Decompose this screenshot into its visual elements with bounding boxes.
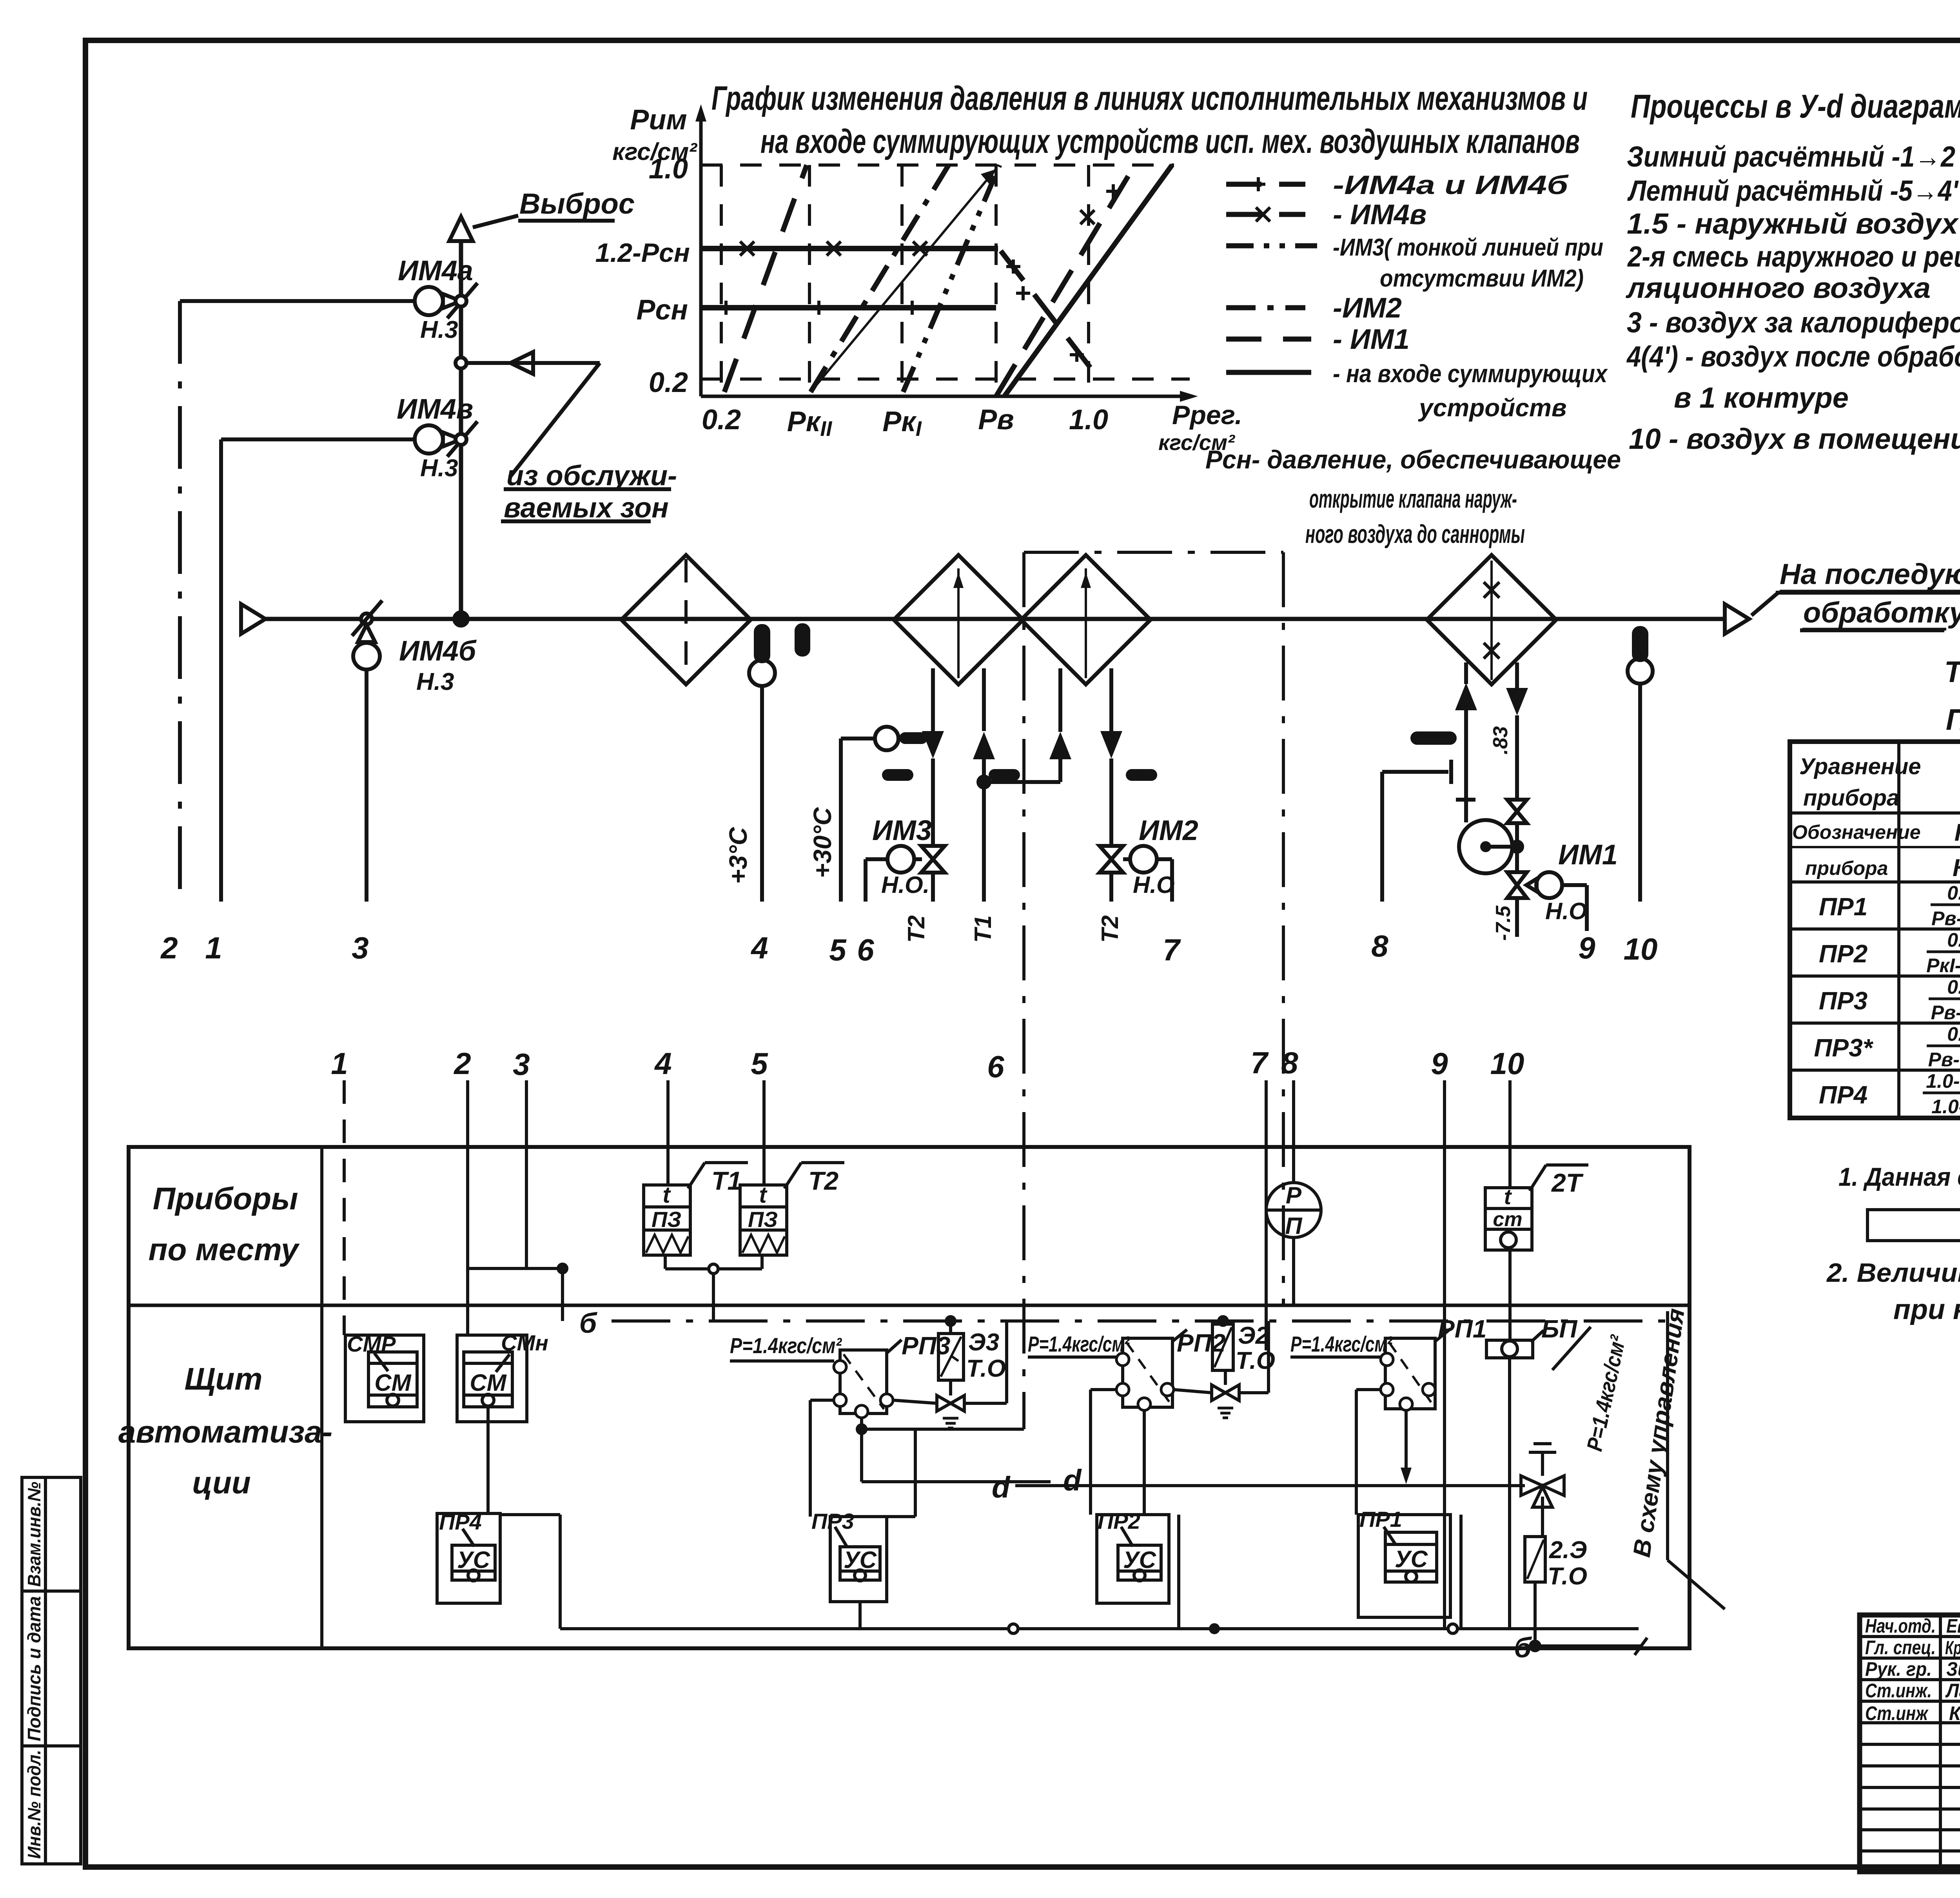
svg-text:открытие клапана наруж-: открытие клапана наруж- — [1309, 484, 1517, 513]
svg-text:d: d — [1063, 1464, 1082, 1497]
svg-text:Рв: Рв — [978, 404, 1014, 435]
svg-text:Рсн: Рсн — [636, 294, 688, 326]
svg-text:РкI-РкII: РкI-РкII — [1926, 954, 1960, 976]
svg-text:СМ: СМ — [374, 1370, 412, 1396]
svg-text:Н.3: Н.3 — [416, 668, 454, 695]
svg-text:ИМ4а: ИМ4а — [398, 255, 473, 287]
svg-text:0.2: 0.2 — [702, 404, 741, 435]
svg-text:4: 4 — [654, 1046, 671, 1081]
svg-text:устройств: устройств — [1418, 394, 1567, 422]
svg-text:Н.3: Н.3 — [420, 455, 458, 482]
svg-text:Р: Р — [1286, 1182, 1302, 1208]
svg-text:ИМ1: ИМ1 — [1558, 839, 1618, 871]
svg-text:Н.3: Н.3 — [420, 316, 458, 343]
svg-text:График изменения давления в ли: График изменения давления в линиях испол… — [711, 80, 1588, 117]
svg-text:0.8: 0.8 — [1947, 882, 1960, 904]
svg-text:2: 2 — [160, 931, 178, 965]
svg-text:10: 10 — [1624, 932, 1658, 966]
svg-text:Р=1.4кгс/см²: Р=1.4кгс/см² — [730, 1333, 842, 1358]
svg-text:В схему управления: В схему управления — [1628, 1307, 1690, 1559]
svg-text:-ИМ3( тонкой линией при: -ИМ3( тонкой линией при — [1333, 234, 1603, 261]
svg-text:9: 9 — [1431, 1046, 1448, 1081]
svg-text:- ИМ1: - ИМ1 — [1333, 324, 1410, 355]
svg-text:5: 5 — [829, 933, 847, 967]
svg-text:0.8: 0.8 — [1947, 929, 1960, 951]
svg-text:ИМ4б: ИМ4б — [399, 635, 477, 667]
svg-text:.83: .83 — [1489, 726, 1512, 755]
svg-text:К: К — [1953, 855, 1960, 882]
svg-text:10: 10 — [1490, 1046, 1524, 1081]
svg-text:ции: ции — [192, 1465, 250, 1500]
svg-text:б: б — [579, 1308, 598, 1339]
svg-text:в 1 контуре: в 1 контуре — [1674, 381, 1849, 414]
svg-text:Рук. гр.: Рук. гр. — [1865, 1658, 1932, 1680]
svg-text:РкII: РкII — [787, 406, 833, 441]
svg-text:УС: УС — [844, 1547, 877, 1573]
svg-text:П: П — [1285, 1213, 1303, 1239]
svg-text:прибора: прибора — [1805, 857, 1888, 879]
svg-text:Ррег.: Ррег. — [1172, 400, 1242, 430]
svg-text:4: 4 — [750, 931, 768, 965]
svg-text:- ИМ4в: - ИМ4в — [1333, 199, 1426, 230]
svg-text:СМ: СМ — [470, 1370, 507, 1396]
svg-text:t: t — [759, 1182, 768, 1208]
svg-text:ПЗ: ПЗ — [652, 1207, 681, 1232]
svg-text:Ст.инж.: Ст.инж. — [1865, 1680, 1932, 1702]
svg-text:1. Данная схема примечена для: 1. Данная схема примечена для следующих … — [1838, 1162, 1960, 1191]
svg-text:Уравнение: Уравнение — [1799, 754, 1921, 779]
svg-text:Зингерман: Зингерман — [1946, 1658, 1960, 1680]
svg-text:ПР4: ПР4 — [1819, 1081, 1867, 1109]
svg-text:0.8: 0.8 — [1947, 1023, 1960, 1045]
svg-text:Взам.инв.№: Взам.инв.№ — [24, 1482, 44, 1587]
svg-text:из обслужи-: из обслужи- — [506, 460, 677, 492]
svg-text:1.0: 1.0 — [1069, 404, 1108, 435]
svg-text:Рсн- давление, обеспечивающее: Рсн- давление, обеспечивающее — [1205, 445, 1621, 474]
svg-text:прибора: прибора — [1803, 785, 1899, 811]
svg-text:8: 8 — [1371, 929, 1388, 963]
svg-text:СМР: СМР — [347, 1332, 396, 1356]
svg-text:ПР1÷ПР4 (ПР2.В): ПР1÷ПР4 (ПР2.В) — [1946, 703, 1960, 737]
svg-text:ПР2: ПР2 — [1819, 940, 1867, 968]
svg-text:УС: УС — [457, 1547, 491, 1573]
svg-text:ст: ст — [1493, 1208, 1522, 1231]
svg-text:УС: УС — [1123, 1547, 1157, 1573]
svg-text:4(4') - воздух после обработ: 4(4') - воздух после обработки — [1626, 340, 1960, 373]
svg-text:Щит: Щит — [184, 1361, 262, 1396]
svg-text:-ИМ4а и ИМ4б: -ИМ4а и ИМ4б — [1333, 170, 1569, 200]
svg-text:ПР3: ПР3 — [1819, 987, 1867, 1015]
svg-text:Гл. спец.: Гл. спец. — [1865, 1637, 1936, 1658]
svg-text:1: 1 — [331, 1046, 348, 1081]
svg-text:6: 6 — [857, 933, 874, 967]
svg-text:9: 9 — [1578, 931, 1595, 965]
svg-text:t: t — [662, 1182, 671, 1208]
svg-text:3: 3 — [352, 931, 368, 965]
svg-text:Подпись и дата: Подпись и дата — [24, 1596, 44, 1741]
svg-text:Рв-РкI: Рв-РкI — [1931, 1002, 1960, 1023]
svg-text:ПР3: ПР3 — [811, 1509, 854, 1533]
svg-text:Н.О: Н.О — [1545, 898, 1587, 924]
svg-text:ПР4: ПР4 — [439, 1510, 482, 1534]
svg-text:ПР2: ПР2 — [1098, 1509, 1140, 1533]
svg-text:Настройка прибора: Настройка прибора — [1955, 819, 1960, 846]
svg-text:ляционного воздуха: ляционного воздуха — [1626, 272, 1931, 304]
svg-text:Т2: Т2 — [1097, 915, 1123, 943]
svg-text:На последующую: На последующую — [1780, 558, 1960, 590]
svg-text:ПР3*: ПР3* — [1814, 1034, 1873, 1062]
svg-text:по месту: по месту — [149, 1232, 300, 1267]
svg-text:ИМ3: ИМ3 — [872, 815, 932, 846]
svg-text:1.0-Рсн: 1.0-Рсн — [1926, 1070, 1960, 1092]
svg-text:ИМ4в: ИМ4в — [397, 394, 473, 425]
svg-text:Рв-0.2: Рв-0.2 — [1931, 907, 1960, 929]
svg-text:Процессы в У-d диаграмме: Процессы в У-d диаграмме — [1631, 88, 1960, 125]
svg-text:d: d — [992, 1471, 1011, 1504]
svg-text:Обозначение: Обозначение — [1792, 821, 1921, 843]
svg-text:+30°C: +30°C — [808, 807, 837, 878]
svg-text:6: 6 — [987, 1049, 1004, 1084]
svg-text:ваемых зон: ваемых зон — [504, 492, 669, 524]
svg-text:при наладке.: при наладке. — [1893, 1294, 1960, 1325]
svg-text:Т2: Т2 — [903, 915, 929, 943]
svg-text:РкI: РкI — [882, 406, 922, 441]
svg-text:Э2: Э2 — [1238, 1322, 1269, 1349]
svg-text:Р=1.4кгс/см²: Р=1.4кгс/см² — [1290, 1332, 1393, 1356]
svg-text:обработку: обработку — [1803, 596, 1960, 629]
svg-text:РП3: РП3 — [902, 1332, 950, 1360]
svg-text:на входе суммирующих устройств: на входе суммирующих устройств исп. мех.… — [760, 123, 1580, 160]
svg-text:2Т: 2Т — [1551, 1168, 1584, 1197]
svg-text:РП1: РП1 — [1438, 1315, 1486, 1343]
svg-text:0.2: 0.2 — [649, 367, 688, 398]
svg-text:Приборы: Приборы — [153, 1181, 298, 1216]
svg-text:5: 5 — [751, 1046, 768, 1081]
svg-text:+3°C: +3°C — [724, 827, 752, 884]
svg-text:ПР1: ПР1 — [1359, 1507, 1402, 1531]
svg-text:1.0-Рв: 1.0-Рв — [1931, 1096, 1960, 1118]
svg-text:Рим: Рим — [630, 104, 687, 136]
svg-text:СМн: СМн — [501, 1330, 548, 1355]
svg-text:1.2-Рсн: 1.2-Рсн — [595, 238, 690, 268]
svg-text:-ИМ2: -ИМ2 — [1333, 292, 1402, 324]
svg-text:2.Э: 2.Э — [1549, 1537, 1587, 1564]
svg-text:Н.О: Н.О — [1133, 872, 1175, 898]
svg-text:Выброс: Выброс — [519, 187, 635, 220]
svg-text:1.0: 1.0 — [649, 153, 688, 185]
svg-text:3: 3 — [513, 1047, 530, 1081]
svg-text:УС: УС — [1395, 1546, 1428, 1572]
svg-text:ного воздуха до саннормы: ного воздуха до саннормы — [1305, 519, 1525, 548]
svg-text:РП2: РП2 — [1177, 1329, 1225, 1357]
svg-text:Кропошевский: Кропошевский — [1945, 1638, 1960, 1658]
svg-text:1: 1 — [205, 931, 222, 965]
svg-text:Р=1.4кгс/см²: Р=1.4кгс/см² — [1582, 1333, 1630, 1453]
svg-text:Э3: Э3 — [968, 1329, 999, 1356]
svg-text:3 - воздух за калорифером: 3 - воздух за калорифером — [1627, 306, 1960, 339]
svg-text:2. Величины давлений РкII, Рк: 2. Величины давлений РкII, РкI, Рв, Рсн … — [1826, 1258, 1960, 1288]
svg-text:ПЗ: ПЗ — [748, 1207, 778, 1232]
svg-text:ПР1: ПР1 — [1819, 893, 1867, 921]
svg-text:Т1: Т1 — [711, 1166, 742, 1195]
svg-text:t: t — [1504, 1184, 1512, 1209]
svg-text:Т.О: Т.О — [1236, 1347, 1275, 1374]
svg-text:10 - воздух в помещении: 10 - воздух в помещении — [1629, 423, 1960, 455]
svg-text:7: 7 — [1163, 933, 1181, 967]
svg-text:отсутствии ИМ2): отсутствии ИМ2) — [1380, 265, 1584, 292]
svg-text:БП: БП — [1541, 1315, 1578, 1343]
svg-text:ИМ2: ИМ2 — [1139, 815, 1198, 846]
svg-text:Ст.инж: Ст.инж — [1865, 1702, 1929, 1724]
svg-text:2-я смесь наружного и рецирку: 2-я смесь наружного и рецирку- — [1627, 240, 1960, 273]
svg-text:7: 7 — [1250, 1045, 1269, 1080]
svg-text:Летний расчётный -5→4': Летний расчётный -5→4' — [1627, 174, 1959, 207]
svg-text:Клименко: Клименко — [1949, 1702, 1960, 1724]
svg-text:Т2: Т2 — [808, 1166, 838, 1195]
svg-text:б: б — [1514, 1632, 1532, 1664]
svg-text:Н.О.: Н.О. — [881, 872, 929, 898]
svg-text:2: 2 — [453, 1046, 471, 1081]
svg-text:-7.5: -7.5 — [1492, 905, 1515, 941]
svg-text:Т1: Т1 — [970, 915, 996, 943]
svg-text:Т.О: Т.О — [966, 1355, 1006, 1382]
svg-text:- на входе суммирующих: - на входе суммирующих — [1333, 359, 1608, 388]
svg-text:Инв.№ подл.: Инв.№ подл. — [24, 1750, 44, 1859]
svg-text:0.8: 0.8 — [1947, 976, 1960, 998]
svg-text:Нач.отд.: Нач.отд. — [1865, 1615, 1936, 1637]
svg-text:Евтушенко: Евтушенко — [1946, 1615, 1960, 1637]
svg-text:автоматиза-: автоматиза- — [118, 1414, 332, 1449]
svg-text:Р=1.4кгс/см²: Р=1.4кгс/см² — [1028, 1332, 1130, 1356]
svg-text:Рв-РкII: Рв-РкII — [1928, 1049, 1960, 1071]
svg-text:Таблицы настройки приборов(с: Таблицы настройки приборов(см. примечани… — [1944, 655, 1960, 689]
svg-text:8: 8 — [1281, 1045, 1298, 1080]
svg-text:Зимний расчётный -1→2→3→4: Зимний расчётный -1→2→3→4 — [1627, 140, 1960, 173]
svg-text:1.5 - наружный воздух: 1.5 - наружный воздух — [1627, 207, 1959, 240]
svg-text:Лазаренко: Лазаренко — [1945, 1680, 1960, 1702]
svg-text:Т.О: Т.О — [1548, 1563, 1587, 1590]
